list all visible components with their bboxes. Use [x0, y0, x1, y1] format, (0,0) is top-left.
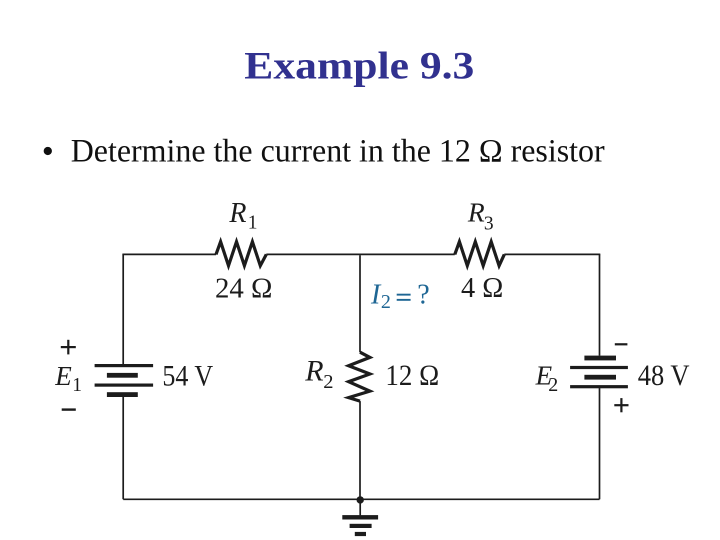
- wire middle rail from top wire to R2: [359, 255, 361, 352]
- wire right rail from top wire down to battery E2: [599, 254, 601, 355]
- label minus of E1: [62, 408, 76, 410]
- svg-text:54 V: 54 V: [162, 361, 213, 393]
- label plus of E1: [61, 340, 76, 355]
- resistor R3: [455, 242, 505, 266]
- svg-text:?: ?: [417, 279, 429, 310]
- label E2: [535, 360, 559, 396]
- wire middle rail from R2 to bottom: [359, 401, 361, 499]
- wire left rail from top wire down to battery E1: [122, 254, 124, 364]
- label R3: [467, 196, 494, 234]
- svg-text:48 V: 48 V: [638, 360, 690, 392]
- label plus of E2: [614, 398, 628, 412]
- svg-text:1: 1: [72, 375, 82, 396]
- svg-text:2: 2: [548, 374, 558, 396]
- svg-text:1: 1: [248, 212, 258, 233]
- svg-text:2: 2: [381, 291, 391, 313]
- battery E2: [570, 356, 628, 389]
- svg-text:Example 9.3: Example 9.3: [244, 45, 474, 88]
- label E1: [54, 361, 82, 396]
- bullet dot: [44, 147, 52, 155]
- svg-text:E: E: [54, 361, 72, 391]
- junction node dot: [357, 496, 364, 503]
- svg-text:24 Ω: 24 Ω: [215, 272, 273, 304]
- label R1: [228, 198, 257, 233]
- svg-text:12 Ω: 12 Ω: [385, 360, 439, 392]
- resistor R1: [216, 242, 266, 266]
- svg-text:R: R: [228, 198, 246, 229]
- ground: [342, 515, 378, 536]
- wire ground stub: [359, 499, 361, 515]
- label I2 = ?: [370, 279, 430, 313]
- resistor R2: [349, 352, 370, 401]
- wire bottom rail: [123, 498, 599, 500]
- battery E1: [95, 364, 154, 397]
- svg-text:3: 3: [484, 213, 494, 234]
- wire left rail below battery E1: [122, 397, 124, 499]
- wire right rail below battery E2: [599, 388, 601, 499]
- svg-text:R: R: [304, 355, 323, 388]
- label minus of E2: [615, 343, 628, 345]
- wire top rail left segment to R1: [122, 253, 216, 255]
- svg-text:R: R: [467, 196, 485, 227]
- svg-text:Determine the current in the 1: Determine the current in the 12 Ω resist…: [71, 134, 605, 170]
- svg-text:4 Ω: 4 Ω: [461, 272, 503, 304]
- svg-text:2: 2: [323, 371, 333, 393]
- label R2: [304, 355, 333, 393]
- wire top rail right segment from R3: [504, 253, 600, 255]
- wire top middle segment: [266, 253, 455, 255]
